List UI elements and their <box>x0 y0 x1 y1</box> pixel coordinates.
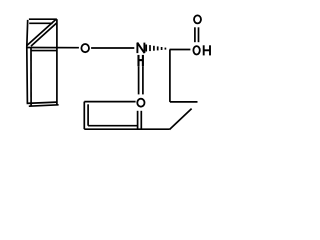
wire bond C to OH <box>170 49 191 51</box>
wire ring1 mid inner horizontal <box>31 50 57 52</box>
wire ring2 left inner vertical <box>87 104 89 125</box>
atom O of OH <box>193 46 199 54</box>
wire bond O1 to N <box>91 47 134 49</box>
wire ring1 top outer edge <box>29 18 57 20</box>
wire chain diagonal <box>170 109 192 130</box>
atom O2 (carbonyl oxygen, top) <box>194 15 201 23</box>
atom H (on N) <box>139 55 143 66</box>
wire N=O double bond line1 <box>138 66 140 94</box>
atom O1 (ether oxygen) <box>81 44 89 52</box>
wire ring2 bottom inner <box>88 125 137 127</box>
atom N <box>137 43 144 54</box>
wire ring1 diagonal D1 <box>27 19 56 45</box>
wire ring1 top inner double line <box>29 22 52 24</box>
wire C=O double bond line1 <box>194 27 196 42</box>
wire ring2 left outer vertical <box>83 102 85 130</box>
wire ring1 bottom edge B <box>29 105 59 106</box>
wire ring1 right edge <box>56 19 58 105</box>
wire ring1 bottom edge A <box>27 102 57 103</box>
atom H of OH <box>204 45 210 55</box>
wire ring1 diagonal D2 <box>31 23 57 46</box>
wire chain horizontal top <box>170 101 198 103</box>
wire C=O double bond line2 <box>198 27 200 42</box>
wire bond ring1 to O1 <box>27 47 79 49</box>
atom O3 (ring oxygen) <box>137 99 144 107</box>
wire ring1 left outer edge <box>26 20 29 103</box>
wire ring2 right double line1 <box>137 111 139 129</box>
wire N=O double bond line2 <box>142 66 144 94</box>
wire ring2 right double line2 <box>140 111 142 129</box>
wire bond C down <box>169 50 171 102</box>
wire ring1 left inner vertical <box>30 47 32 106</box>
hashed wedge N to C <box>146 45 165 52</box>
wire chain bottom + ring2 bottom outer <box>84 128 169 130</box>
wire ring2 top edge <box>84 101 135 103</box>
